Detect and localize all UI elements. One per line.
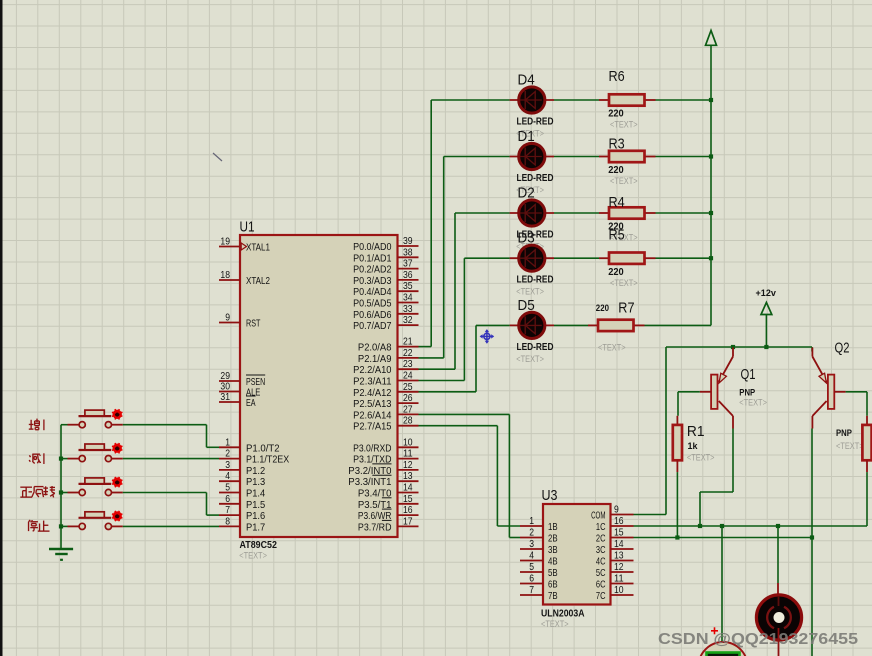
svg-text:EA: EA (246, 397, 256, 409)
svg-text:P2.0/A8: P2.0/A8 (358, 342, 392, 354)
svg-text:U3: U3 (542, 487, 558, 504)
svg-text:7C: 7C (596, 590, 606, 602)
svg-text:R4: R4 (609, 194, 625, 211)
svg-text:P3.7/RD: P3.7/RD (358, 521, 392, 533)
svg-text:33: 33 (403, 303, 413, 315)
svg-text:<TEXT>: <TEXT> (836, 441, 864, 452)
svg-text:4: 4 (225, 470, 230, 482)
svg-text:<TEXT>: <TEXT> (516, 354, 544, 365)
svg-text:7: 7 (529, 584, 534, 596)
svg-text:<TEXT>: <TEXT> (610, 278, 638, 289)
svg-text:13: 13 (614, 550, 624, 562)
svg-text:R7: R7 (618, 299, 634, 316)
svg-text:4C: 4C (596, 556, 606, 568)
svg-text:P1.2: P1.2 (246, 465, 265, 477)
svg-text:16: 16 (614, 515, 624, 527)
svg-text:<TEXT>: <TEXT> (541, 619, 569, 630)
svg-text:3: 3 (225, 459, 230, 471)
svg-text:PNP: PNP (836, 428, 852, 439)
svg-text:21: 21 (403, 336, 413, 348)
svg-text:P0.3/AD3: P0.3/AD3 (353, 275, 392, 287)
svg-text:COM: COM (591, 510, 605, 522)
svg-text:2C: 2C (596, 533, 606, 545)
svg-text:1k: 1k (688, 441, 699, 452)
svg-text:P2.7/A15: P2.7/A15 (353, 421, 392, 433)
svg-text:LED-RED: LED-RED (517, 117, 554, 128)
svg-text:R1: R1 (687, 423, 705, 440)
svg-text:18: 18 (220, 269, 230, 281)
svg-text:3: 3 (529, 538, 534, 550)
svg-text:D4: D4 (518, 72, 535, 89)
svg-text:22: 22 (403, 347, 413, 359)
svg-text:CSDN @QQ2193276455: CSDN @QQ2193276455 (658, 631, 858, 648)
svg-text:<TEXT>: <TEXT> (610, 176, 638, 187)
svg-text:D1: D1 (518, 128, 535, 145)
svg-text:9: 9 (614, 504, 619, 516)
svg-text:U1: U1 (240, 219, 255, 236)
svg-text:P1.6: P1.6 (246, 510, 265, 522)
svg-text:13: 13 (403, 470, 413, 482)
svg-text:11: 11 (403, 448, 413, 460)
svg-text:P0.4/AD4: P0.4/AD4 (353, 286, 392, 298)
svg-text:D5: D5 (518, 297, 535, 314)
svg-text:R3: R3 (609, 136, 625, 153)
svg-text:Q2: Q2 (835, 340, 850, 357)
svg-text:220: 220 (608, 267, 624, 278)
svg-text:P1.3: P1.3 (246, 476, 265, 488)
svg-text:P0.2/AD2: P0.2/AD2 (353, 264, 392, 276)
svg-text:3C: 3C (596, 544, 606, 556)
svg-text:P2.3/A11: P2.3/A11 (353, 376, 392, 388)
svg-text:3B: 3B (548, 544, 558, 556)
svg-text:1: 1 (225, 436, 230, 448)
svg-text:4: 4 (529, 550, 534, 562)
svg-text:32: 32 (403, 314, 413, 326)
svg-text:<TEXT>: <TEXT> (687, 452, 715, 463)
svg-text:1: 1 (529, 515, 534, 527)
svg-text:6B: 6B (548, 579, 558, 591)
svg-text:P0.7/AD7: P0.7/AD7 (353, 320, 392, 332)
svg-text:25: 25 (403, 381, 413, 393)
svg-text:10: 10 (403, 436, 413, 448)
svg-text:P2.5/A13: P2.5/A13 (353, 398, 392, 410)
svg-text:1B: 1B (548, 521, 558, 533)
svg-text:11: 11 (614, 573, 624, 585)
svg-text:R5: R5 (609, 227, 625, 244)
svg-text:XTAL1: XTAL1 (246, 242, 270, 254)
svg-text:7B: 7B (548, 590, 558, 602)
svg-text:P0.1/AD1: P0.1/AD1 (353, 252, 392, 264)
svg-text:15: 15 (614, 527, 624, 539)
svg-text:5: 5 (225, 482, 230, 494)
svg-text:6: 6 (529, 573, 534, 585)
svg-text:P3.3/INT1: P3.3/INT1 (348, 476, 391, 488)
svg-text:5: 5 (529, 561, 534, 573)
svg-text:XTAL2: XTAL2 (246, 275, 270, 287)
svg-text:38: 38 (403, 246, 413, 258)
svg-text:26: 26 (403, 392, 413, 404)
svg-text:15: 15 (403, 493, 413, 505)
svg-text:P0.6/AD6: P0.6/AD6 (353, 309, 392, 321)
svg-text:220: 220 (608, 165, 624, 176)
svg-text:2B: 2B (548, 533, 558, 545)
svg-text:P0.0/AD0: P0.0/AD0 (353, 241, 392, 253)
svg-text:17: 17 (403, 515, 413, 527)
svg-text:10: 10 (614, 584, 624, 596)
svg-text:2: 2 (225, 448, 230, 460)
svg-text:19: 19 (220, 236, 230, 248)
svg-text:6: 6 (225, 493, 230, 505)
svg-text:5B: 5B (548, 567, 558, 579)
svg-text:<TEXT>: <TEXT> (598, 343, 626, 354)
svg-text:P3.0/RXD: P3.0/RXD (353, 442, 392, 454)
svg-text:P2.2/A10: P2.2/A10 (353, 364, 392, 376)
svg-text:D3: D3 (518, 230, 535, 247)
svg-text:P1.0/T2: P1.0/T2 (246, 442, 280, 454)
svg-text:<TEXT>: <TEXT> (239, 550, 267, 561)
svg-text:LED-RED: LED-RED (517, 275, 554, 286)
svg-text:P1.7: P1.7 (246, 521, 265, 533)
svg-text:35: 35 (403, 280, 413, 292)
svg-text:P0.5/AD5: P0.5/AD5 (353, 298, 392, 310)
svg-text:<TEXT>: <TEXT> (739, 398, 767, 409)
svg-text:1C: 1C (596, 521, 606, 533)
svg-text:D2: D2 (518, 185, 535, 202)
svg-text:Q1: Q1 (741, 366, 756, 383)
svg-text:P2.6/A14: P2.6/A14 (353, 409, 392, 421)
svg-text:P2.4/A12: P2.4/A12 (353, 387, 392, 399)
svg-text:14: 14 (614, 538, 624, 550)
svg-text:8: 8 (225, 515, 230, 527)
svg-text:+12v: +12v (756, 288, 777, 299)
svg-text:16: 16 (403, 504, 413, 516)
svg-text:23: 23 (403, 358, 413, 370)
svg-text:P1.5: P1.5 (246, 499, 265, 511)
svg-text:28: 28 (403, 415, 413, 427)
svg-text:14: 14 (403, 482, 413, 494)
svg-text:4B: 4B (548, 556, 558, 568)
svg-text:220: 220 (596, 303, 609, 313)
svg-text:27: 27 (403, 403, 413, 415)
svg-text:36: 36 (403, 269, 413, 281)
svg-text:5C: 5C (596, 567, 606, 579)
svg-text:9: 9 (225, 312, 230, 324)
svg-text:12: 12 (614, 561, 624, 573)
svg-text:LED-RED: LED-RED (517, 173, 554, 184)
svg-text:ULN2003A: ULN2003A (541, 609, 585, 620)
svg-text:7: 7 (225, 504, 230, 516)
svg-text:P1.4: P1.4 (246, 488, 265, 500)
svg-text:RST: RST (246, 318, 261, 330)
svg-text:39: 39 (403, 235, 413, 247)
svg-text:<TEXT>: <TEXT> (610, 120, 638, 131)
svg-text:6C: 6C (596, 579, 606, 591)
svg-text:P2.1/A9: P2.1/A9 (358, 353, 392, 365)
svg-text:R6: R6 (609, 68, 625, 85)
svg-text:12: 12 (403, 459, 413, 471)
svg-text:24: 24 (403, 370, 413, 382)
svg-text:31: 31 (220, 391, 230, 403)
svg-text:LED-RED: LED-RED (517, 342, 554, 353)
svg-text:37: 37 (403, 258, 413, 270)
svg-text:2: 2 (529, 527, 534, 539)
svg-text:P1.1/T2EX: P1.1/T2EX (246, 454, 289, 466)
svg-text:220: 220 (608, 109, 624, 120)
svg-text:34: 34 (403, 292, 413, 304)
